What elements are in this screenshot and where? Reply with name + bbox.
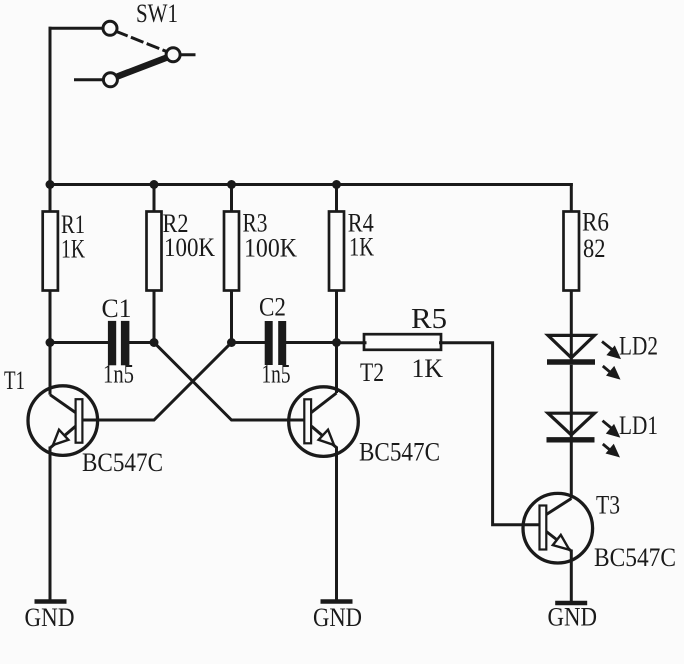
svg-text:GND: GND xyxy=(25,603,75,632)
svg-text:LD1: LD1 xyxy=(619,411,658,440)
svg-text:LD2: LD2 xyxy=(619,332,658,361)
svg-text:T2: T2 xyxy=(360,358,384,387)
svg-text:GND: GND xyxy=(548,603,598,632)
svg-text:1n5: 1n5 xyxy=(262,360,291,389)
svg-text:1K: 1K xyxy=(61,235,85,264)
svg-text:BC547C: BC547C xyxy=(359,438,440,467)
svg-text:R6: R6 xyxy=(582,208,609,237)
svg-text:100K: 100K xyxy=(164,233,215,262)
svg-text:1K: 1K xyxy=(349,233,374,262)
svg-text:BC547C: BC547C xyxy=(82,448,163,477)
svg-text:82: 82 xyxy=(583,234,606,263)
svg-text:SW1: SW1 xyxy=(136,0,178,28)
svg-text:R5: R5 xyxy=(411,304,447,335)
svg-text:1K: 1K xyxy=(412,354,444,383)
svg-text:100K: 100K xyxy=(244,234,297,263)
svg-text:1n5: 1n5 xyxy=(103,360,134,389)
svg-text:C2: C2 xyxy=(259,293,286,322)
svg-text:T3: T3 xyxy=(596,491,620,520)
svg-text:GND: GND xyxy=(313,603,362,632)
svg-text:C1: C1 xyxy=(102,294,132,323)
svg-text:T1: T1 xyxy=(4,366,25,395)
svg-text:BC547C: BC547C xyxy=(594,543,676,572)
